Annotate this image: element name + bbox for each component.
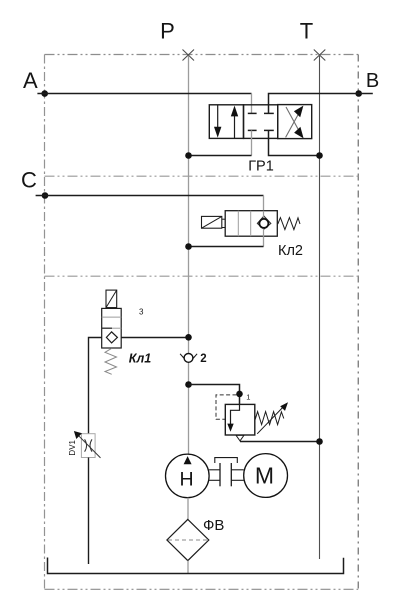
section divider 1: [45, 175, 359, 177]
node A: [41, 90, 48, 97]
motor M: [244, 454, 288, 498]
label GR1: [248, 159, 274, 175]
filter FV: [167, 519, 209, 560]
shaft coupling pump-motor: [209, 458, 244, 487]
wire A drop into valve port: [251, 94, 253, 114]
wire Kl2 outlet to P net: [189, 246, 264, 248]
tank line: [48, 558, 344, 574]
port mark X at T: [314, 50, 326, 61]
label 1 (pin): [246, 392, 250, 401]
label T: [300, 19, 313, 44]
svg-text:ФВ: ФВ: [203, 517, 224, 534]
svg-text:P: P: [160, 19, 175, 44]
wire C drop to Kl2: [263, 196, 265, 211]
label Kl1: [129, 351, 151, 365]
wire C horizontal: [36, 195, 264, 197]
valve Kl2 poppet circle: [259, 219, 268, 228]
wire B to valve port: [269, 94, 373, 114]
svg-text:2: 2: [200, 353, 206, 365]
pilot line (dashed) of relief valve: [216, 395, 237, 419]
label P: [160, 19, 175, 44]
label 2: [200, 353, 206, 365]
wire relief outlet to T net: [240, 441, 320, 443]
valve Kl2 body: [225, 211, 277, 237]
wire Kl1 right to P net: [121, 337, 188, 339]
section divider 2: [45, 275, 359, 277]
svg-text:1: 1: [246, 392, 250, 401]
node GR1-P junction: [185, 152, 192, 159]
enclosure boundary bottom (dash-dot-dot): [45, 588, 359, 590]
node GR1-T junction: [316, 152, 323, 159]
valve Kl1 seat diamond: [106, 332, 117, 343]
svg-text:Кл2: Кл2: [278, 243, 303, 259]
valve GR1 left position square with parallel arrows: [209, 105, 243, 139]
wire P net to relief valve 1: [189, 385, 240, 405]
svg-text:A: A: [23, 68, 38, 93]
svg-text:ГР1: ГР1: [248, 159, 274, 175]
valve Kl2 solenoid: [202, 216, 226, 228]
label Kl2: [278, 243, 303, 259]
relief valve 1 outlet seat triangle: [236, 435, 244, 441]
relief valve 1 body: [225, 404, 255, 435]
wire DV1 drain to tank: [88, 458, 90, 565]
relief valve 1 adjustment arrow: [257, 402, 288, 434]
throttle DV1: [74, 431, 101, 458]
svg-text:M: M: [255, 463, 274, 489]
wire Kl2 outlet drop: [263, 236, 265, 246]
label FV: [203, 517, 224, 534]
wire GR1 P-port to P net: [189, 155, 252, 157]
svg-text:H: H: [179, 468, 193, 490]
svg-text:Кл1: Кл1: [129, 351, 151, 365]
valve Kl2 spring: [278, 218, 300, 230]
valve Kl2 internal line: [263, 211, 265, 237]
label 3 (pin): [139, 308, 144, 317]
wire Kl1 left drain down to throttle DV1: [89, 338, 102, 434]
port mark X at P: [183, 50, 195, 61]
enclosure boundary right (dashed): [357, 55, 359, 590]
node B: [355, 90, 362, 97]
svg-text:3: 3: [139, 308, 144, 317]
enclosure boundary left (dash-dot): [44, 55, 46, 590]
wire GR1 T-port down to T net: [269, 130, 320, 155]
node relief pilot junction: [236, 391, 243, 398]
wire GR1 P-port drop: [251, 130, 253, 155]
label A: [23, 68, 38, 93]
wire: P net vertical: [188, 56, 190, 454]
valve Kl1 spring: [105, 348, 117, 374]
node check valve bottom junction: [185, 381, 192, 388]
label B: [366, 70, 379, 92]
node relief-T junction: [316, 438, 323, 445]
node Kl2-P junction: [185, 243, 192, 250]
valve GR1 centre position square (closed centre): [244, 105, 278, 139]
node C: [42, 192, 49, 199]
valve GR1 right position square with crossed arrows: [278, 105, 312, 139]
enclosure boundary top (dash-dot-dot): [45, 54, 359, 56]
wire A horizontal: [37, 93, 251, 95]
svg-text:B: B: [366, 70, 379, 92]
svg-text:T: T: [300, 19, 313, 44]
valve Kl1 body: [102, 308, 122, 348]
relief valve 1 spring: [255, 412, 284, 425]
node Kl1-P junction / check valve top: [185, 334, 192, 341]
valve Kl2 seat diamond: [257, 216, 270, 229]
wire: T net vertical: [319, 56, 321, 559]
wire filter to tank: [187, 561, 189, 574]
pump H: [166, 454, 210, 498]
label C: [21, 167, 37, 192]
wire pump suction down to filter: [187, 498, 189, 520]
label DV1 (rotated): [68, 439, 77, 455]
svg-text:C: C: [21, 167, 37, 192]
valve Kl1 solenoid: [106, 290, 117, 308]
svg-text:DV1: DV1: [68, 439, 77, 455]
check valve 2: [180, 354, 197, 363]
